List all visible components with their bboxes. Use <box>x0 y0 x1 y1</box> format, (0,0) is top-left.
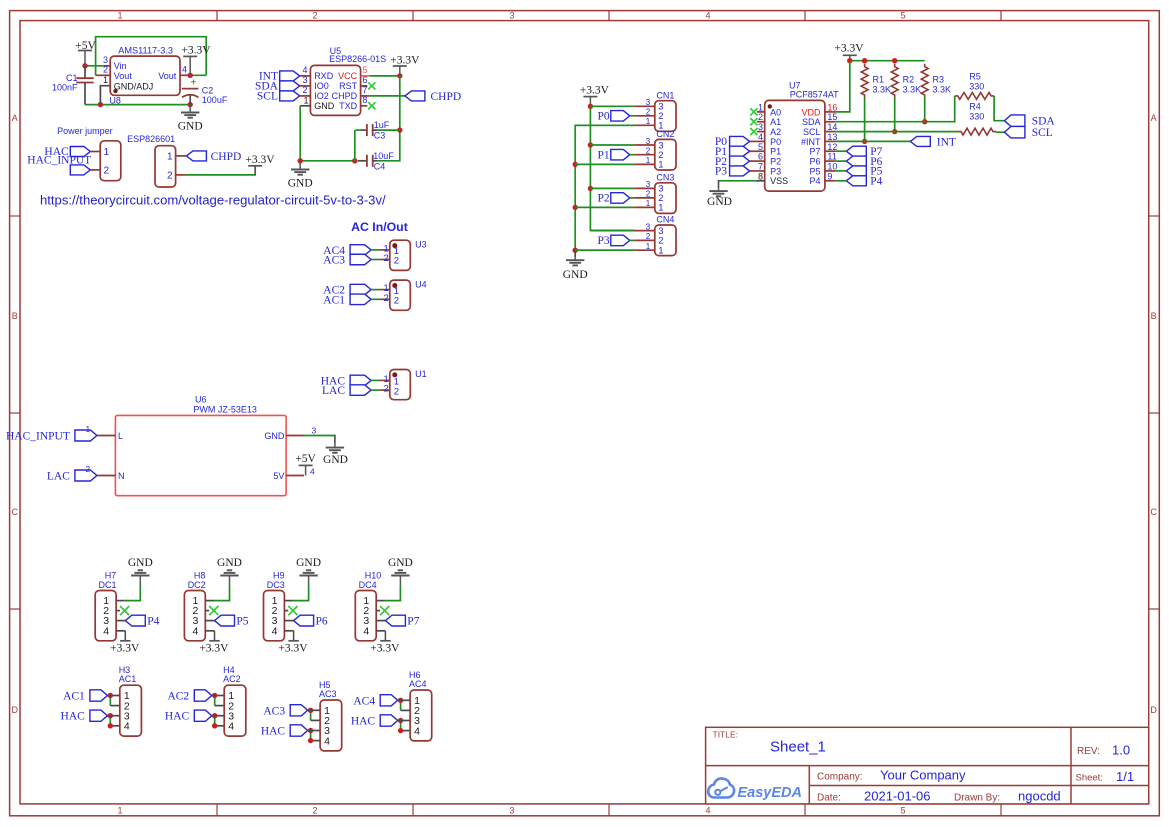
svg-text:P4: P4 <box>147 615 159 627</box>
wire AC4 to U3 pin1 <box>371 249 380 251</box>
capacitor C3 1uF <box>361 120 390 140</box>
svg-text:1uF: 1uF <box>374 120 390 130</box>
svg-text:+: + <box>190 78 196 89</box>
no-connect X on H7 pin2 <box>120 606 129 615</box>
EasyEDA logo <box>708 778 802 801</box>
header H7 DC1 <box>95 571 125 641</box>
capacitor C2 100uF polarized <box>182 78 228 105</box>
svg-text:PCF8574AT: PCF8574AT <box>790 89 839 99</box>
svg-text:GND: GND <box>314 101 335 111</box>
wire +3.3V to CN2 pin3 <box>590 144 634 146</box>
wire U8 GND rail <box>85 102 193 107</box>
wire +3.3V to CN1 pin3 <box>590 105 634 107</box>
junction dots H6 <box>398 698 403 734</box>
svg-text:2: 2 <box>312 10 317 20</box>
svg-text:U1: U1 <box>415 369 427 379</box>
svg-text:4: 4 <box>414 725 420 737</box>
svg-text:2: 2 <box>86 465 91 474</box>
net flag P1 (to U7) <box>715 146 750 158</box>
regulator U8 AMS1117-3.3 <box>96 45 191 105</box>
svg-text:2: 2 <box>384 293 389 304</box>
svg-text:8: 8 <box>758 171 763 181</box>
wire H7 pin1 to GND <box>124 586 140 601</box>
svg-text:5: 5 <box>900 806 905 816</box>
svg-text:16: 16 <box>827 102 837 112</box>
svg-text:P7: P7 <box>407 615 419 627</box>
svg-text:3: 3 <box>312 426 317 436</box>
connector U4 <box>380 280 427 311</box>
ground GND (H10) <box>388 557 413 586</box>
svg-text:+3.3V: +3.3V <box>370 643 400 655</box>
power +3.3V (H7) <box>110 631 140 655</box>
wire AC2 to H4 pins 1-2 <box>215 696 225 706</box>
svg-text:GND: GND <box>288 177 313 189</box>
no-connect X on H8 pin2 <box>209 606 218 615</box>
svg-text:4: 4 <box>103 625 109 637</box>
svg-text:2: 2 <box>312 806 317 816</box>
svg-text:GND: GND <box>264 431 285 441</box>
wire U5 VCC to +3.3V <box>370 73 403 78</box>
svg-text:GND: GND <box>323 454 348 466</box>
svg-text:U4: U4 <box>415 280 427 290</box>
svg-text:2: 2 <box>384 384 389 395</box>
wire P3 to CN4 pin2 <box>630 239 635 241</box>
wire GND to CN3 pin1 <box>575 206 634 208</box>
svg-text:1: 1 <box>86 425 91 434</box>
net flag SDA (to U5) <box>255 81 300 93</box>
svg-text:ESP826601: ESP826601 <box>127 134 175 144</box>
svg-text:AC In/Out: AC In/Out <box>351 220 408 234</box>
wire P7 to U7 pin12 <box>835 150 846 152</box>
wire U7 SCL to R4 <box>835 131 958 133</box>
wire AC1 to H3 pins 1-2 <box>110 696 120 706</box>
svg-text:CHPD: CHPD <box>332 91 358 101</box>
wire R5 to SDA flag <box>994 96 1004 121</box>
svg-text:A0: A0 <box>770 107 781 117</box>
svg-text:2: 2 <box>302 85 307 95</box>
svg-text:3: 3 <box>646 98 651 107</box>
svg-text:AMS1117-3.3: AMS1117-3.3 <box>118 45 173 55</box>
svg-text:Sheet:: Sheet: <box>1076 773 1103 784</box>
svg-text:1: 1 <box>658 160 663 171</box>
svg-text:9: 9 <box>827 171 832 181</box>
net flag P5 (to H8) <box>215 615 249 627</box>
header H8 DC2 <box>184 571 214 641</box>
net flag SDA (I2C bus) <box>1004 115 1055 128</box>
net flag P0 (to U7) <box>715 136 750 148</box>
svg-text:1: 1 <box>303 95 308 105</box>
svg-text:A: A <box>12 113 18 123</box>
wire AC1 to U4 pin2 <box>371 298 380 300</box>
svg-text:AC3: AC3 <box>263 705 285 717</box>
power +3.3V (H9) <box>278 631 308 655</box>
wire LAC to U1 pin2 <box>371 389 380 391</box>
svg-text:A2: A2 <box>770 127 781 137</box>
svg-text:4: 4 <box>302 65 307 75</box>
svg-text:A1: A1 <box>770 117 781 127</box>
wire U8 pin1 to GND rail <box>100 86 109 105</box>
svg-text:1: 1 <box>167 151 173 162</box>
ground GND (U6) <box>323 444 348 467</box>
svg-text:4: 4 <box>363 625 369 637</box>
svg-text:13: 13 <box>827 132 837 142</box>
wire R4 to SCL flag <box>996 131 1004 133</box>
power +3.3V (U8 output) <box>181 44 211 75</box>
net flag HAC (to H5) <box>261 725 308 738</box>
svg-text:LAC: LAC <box>322 385 345 397</box>
svg-text:B: B <box>12 311 18 321</box>
header H5 AC3 <box>308 680 342 751</box>
net flag P0 (to CN1) <box>598 111 630 123</box>
power +3.3V (CN group) <box>580 84 610 106</box>
svg-text:AC1: AC1 <box>323 294 345 306</box>
net flag AC2 (to H4) <box>167 690 211 703</box>
connector U3 <box>380 240 427 271</box>
junction dots H4 <box>212 693 217 729</box>
svg-text:CN1: CN1 <box>656 90 674 100</box>
svg-text:14: 14 <box>827 122 837 132</box>
module U5 ESP8266-01S <box>300 46 386 115</box>
wire U5 CHPD to flag <box>370 95 405 97</box>
svg-text:CHPD: CHPD <box>211 151 242 163</box>
net flag HAC (to U1) <box>321 375 371 387</box>
svg-text:GND: GND <box>217 557 242 569</box>
svg-text:3: 3 <box>646 180 651 189</box>
svg-text:5: 5 <box>758 142 763 152</box>
module U6 PWM JZ-53E13 <box>97 395 317 496</box>
svg-text:1/1: 1/1 <box>1116 769 1134 784</box>
svg-text:P0: P0 <box>770 137 781 147</box>
svg-text:Power jumper: Power jumper <box>57 126 113 136</box>
svg-text:A: A <box>1151 113 1157 123</box>
svg-text:CN4: CN4 <box>656 215 674 225</box>
svg-text:HAC: HAC <box>61 711 86 723</box>
power +5V (U6) <box>295 453 316 475</box>
header H9 DC3 <box>264 571 294 641</box>
wire U7 #INT to INT flag <box>835 140 910 142</box>
wire U7 VSS to ground <box>719 180 757 188</box>
wire AC3 to U3 pin2 <box>371 259 380 261</box>
svg-text:2021-01-06: 2021-01-06 <box>864 789 931 804</box>
ground GND (U5) <box>288 161 313 190</box>
svg-text:8: 8 <box>362 95 367 105</box>
junction dots H3 <box>108 693 113 729</box>
wire AC2 to U4 pin1 <box>371 289 380 291</box>
svg-text:2: 2 <box>646 108 651 117</box>
net flag HAC (to H3) <box>61 710 108 723</box>
svg-text:C: C <box>1150 507 1157 517</box>
svg-text:3: 3 <box>302 75 307 85</box>
svg-text:1: 1 <box>103 75 108 85</box>
capacitor C4 10uF <box>358 151 394 171</box>
svg-text:CN2: CN2 <box>656 129 674 139</box>
svg-text:100uF: 100uF <box>202 95 228 105</box>
svg-text:GND: GND <box>296 557 321 569</box>
svg-text:12: 12 <box>827 142 837 152</box>
svg-text:P1: P1 <box>598 149 610 161</box>
net flag SCL (I2C bus) <box>1004 126 1052 139</box>
header H10 DC4 <box>355 571 385 641</box>
svg-text:AC2: AC2 <box>167 691 189 703</box>
svg-text:Vout: Vout <box>158 71 177 81</box>
wire AC3 to H5 pins 1-2 <box>311 710 321 720</box>
svg-text:Date:: Date: <box>817 793 841 804</box>
svg-text:AC3: AC3 <box>323 255 345 267</box>
svg-text:AC4: AC4 <box>353 695 375 707</box>
resistor R4 330 <box>958 101 996 135</box>
svg-text:4: 4 <box>758 132 763 142</box>
io expander U7 PCF8574AT <box>750 80 840 191</box>
wire U8 Vout pin2 to pin4 loop <box>96 37 207 76</box>
net flag INT (to U5) <box>259 71 300 83</box>
svg-text:CHPD: CHPD <box>431 91 462 103</box>
svg-text:3: 3 <box>509 10 514 20</box>
no-connect X on U7 A1 <box>750 118 757 125</box>
ground GND (H8) <box>217 557 242 586</box>
svg-text:HAC_INPUT: HAC_INPUT <box>6 431 70 443</box>
wire AC4 to H6 pins 1-2 <box>401 700 411 710</box>
svg-text:7: 7 <box>758 161 763 171</box>
wire U8 pin4 to +3.3V node <box>180 73 206 78</box>
no-connect X on H9 pin2 <box>288 606 297 615</box>
no-connect X on U5 TXD <box>368 102 375 109</box>
svg-text:DC1: DC1 <box>99 580 117 590</box>
svg-text:LAC: LAC <box>47 471 70 483</box>
svg-text:ESP8266-01S: ESP8266-01S <box>329 54 386 64</box>
svg-text:C3: C3 <box>374 131 386 141</box>
net flag P4 (to H7) <box>125 615 159 627</box>
svg-text:AC1: AC1 <box>119 674 137 684</box>
svg-text:3: 3 <box>758 122 763 132</box>
wire U6 GND pin to ground <box>304 435 335 444</box>
svg-text:H10: H10 <box>365 571 382 581</box>
svg-text:1.0: 1.0 <box>1112 743 1130 758</box>
svg-text:H7: H7 <box>105 571 117 581</box>
svg-text:+3.3V: +3.3V <box>181 44 211 56</box>
svg-text:4: 4 <box>228 721 234 733</box>
svg-text:3.3K: 3.3K <box>903 85 922 95</box>
svg-text:INT: INT <box>937 136 956 148</box>
svg-text:IO2: IO2 <box>314 91 329 101</box>
svg-text:P3: P3 <box>770 166 781 176</box>
svg-text:1: 1 <box>646 117 651 126</box>
svg-text:CN3: CN3 <box>656 172 674 182</box>
svg-text:R3: R3 <box>933 75 945 85</box>
svg-text:4: 4 <box>705 806 710 816</box>
svg-text:P5: P5 <box>809 166 820 176</box>
svg-text:+3.3V: +3.3V <box>199 643 229 655</box>
svg-text:+5V: +5V <box>295 453 316 465</box>
wire +3.3V vertical to C3 C4 <box>377 76 402 161</box>
wire HAC to U1 pin1 <box>371 379 380 381</box>
svg-text:4: 4 <box>192 625 198 637</box>
svg-text:1: 1 <box>646 242 651 251</box>
connector CN2 <box>634 129 676 171</box>
svg-text:L: L <box>118 431 123 441</box>
net flag LAC (to U1) <box>322 385 371 397</box>
net flag HAC (to H6) <box>351 715 398 728</box>
net flag AC4 (to H6) <box>353 695 397 708</box>
svg-text:2: 2 <box>646 232 651 241</box>
wire HAC to H3 pins 3-4 <box>110 716 120 726</box>
svg-text:+3.3V: +3.3V <box>245 154 275 166</box>
svg-text:11: 11 <box>827 152 836 162</box>
svg-text:1: 1 <box>646 199 651 208</box>
connector CN4 <box>634 215 676 257</box>
net flag P2 (to U7) <box>715 156 750 168</box>
svg-text:P7: P7 <box>809 147 820 157</box>
svg-text:P4: P4 <box>809 176 820 186</box>
svg-text:HAC: HAC <box>351 716 376 728</box>
svg-text:GND: GND <box>388 557 413 569</box>
svg-text:10uF: 10uF <box>373 151 394 161</box>
svg-text:R4: R4 <box>969 101 981 111</box>
svg-text:Vout: Vout <box>114 71 133 81</box>
svg-text:GND: GND <box>707 196 732 208</box>
power +3.3V (U7 pullups) <box>834 42 864 60</box>
wire +3.3V vertical rail CN group <box>588 104 635 231</box>
svg-text:5: 5 <box>900 10 905 20</box>
svg-text:C: C <box>12 507 19 517</box>
svg-text:4: 4 <box>324 735 330 747</box>
svg-text:10: 10 <box>827 161 837 171</box>
resistor R3 3.3K <box>921 64 951 98</box>
net flag LAC (to U6 N) <box>47 465 97 482</box>
svg-text:1: 1 <box>658 203 663 214</box>
svg-text:AC3: AC3 <box>319 689 337 699</box>
wire HAC to H4 pins 3-4 <box>215 716 225 726</box>
wire P5 to U7 pin10 <box>835 170 846 172</box>
svg-text:IO0: IO0 <box>314 81 329 91</box>
junction dots H5 <box>308 708 313 744</box>
net flag P7 (from U7) <box>846 146 882 158</box>
svg-text:P3: P3 <box>715 166 727 178</box>
svg-text:HAC: HAC <box>261 726 286 738</box>
svg-text:VDD: VDD <box>801 107 821 117</box>
net flag HAC (power jumper) <box>44 146 90 158</box>
connector CN1 <box>634 90 676 131</box>
svg-text:Vin: Vin <box>114 61 127 71</box>
power +3.3V (H8) <box>199 631 229 655</box>
svg-text:100nF: 100nF <box>52 82 78 92</box>
svg-text:https://theorycircuit.com/volt: https://theorycircuit.com/voltage-regula… <box>40 193 386 208</box>
svg-text:5V: 5V <box>273 471 284 481</box>
svg-text:15: 15 <box>827 112 837 122</box>
wire +3.3V to CN4 pin3 <box>590 230 634 232</box>
svg-text:GND: GND <box>128 557 153 569</box>
svg-text:2: 2 <box>103 64 108 74</box>
net flag P4 (from U7) <box>846 176 882 188</box>
net flag CHPD (U5) <box>405 91 461 103</box>
svg-text:3: 3 <box>509 806 514 816</box>
connector CN3 <box>634 172 676 213</box>
svg-text:TXD: TXD <box>339 101 358 111</box>
svg-text:B: B <box>1151 311 1157 321</box>
svg-text:D: D <box>12 705 19 715</box>
svg-text:Company:: Company: <box>817 772 863 783</box>
ground GND (CN group) <box>563 250 588 281</box>
svg-text:7: 7 <box>362 85 367 95</box>
svg-text:2: 2 <box>646 147 651 156</box>
svg-text:4: 4 <box>124 721 130 733</box>
net flag AC1 (to H3) <box>63 690 107 703</box>
net flag P1 (to CN2) <box>598 149 630 161</box>
wire GND to CN1 pin1 <box>575 124 634 126</box>
net flag SCL (to U5) <box>257 91 300 103</box>
wire +5V to U8 Vin <box>82 63 103 68</box>
wire GND to CN2 pin1 <box>575 163 634 165</box>
svg-text:DC3: DC3 <box>267 580 285 590</box>
wire GND vertical rail CN group <box>573 125 635 253</box>
wire P4 to U7 pin9 <box>835 180 846 182</box>
wire P2 to CN3 pin2 <box>630 197 635 199</box>
svg-text:330: 330 <box>969 81 984 91</box>
svg-text:3: 3 <box>646 222 651 231</box>
svg-text:4: 4 <box>705 10 710 20</box>
wire +3.3V down to U7 VDD <box>835 61 850 112</box>
header H3 AC1 <box>107 665 141 736</box>
svg-text:VCC: VCC <box>338 71 358 81</box>
svg-text:2: 2 <box>394 296 399 307</box>
no-connect X on U5 RST <box>368 82 375 89</box>
header ESP826601 <box>127 134 186 187</box>
wire P0 to CN1 pin2 <box>630 115 635 117</box>
svg-text:GND/ADJ: GND/ADJ <box>114 81 154 91</box>
svg-text:1: 1 <box>758 102 763 112</box>
svg-text:P0: P0 <box>598 111 610 123</box>
ground GND (H9) <box>296 557 321 586</box>
wire HAC to H5 pins 3-4 <box>311 731 321 741</box>
svg-text:330: 330 <box>969 111 984 121</box>
svg-text:P2: P2 <box>770 157 781 167</box>
net flag AC1 (to U4) <box>323 294 371 306</box>
resistor R5 330 <box>955 71 994 99</box>
svg-text:VSS: VSS <box>770 176 788 186</box>
svg-text:SDA: SDA <box>1032 116 1056 128</box>
svg-text:+3.3V: +3.3V <box>390 54 420 66</box>
svg-text:ngocdd: ngocdd <box>1018 789 1061 804</box>
svg-text:+3.3V: +3.3V <box>834 42 864 54</box>
svg-text:RXD: RXD <box>314 71 334 81</box>
svg-text:2: 2 <box>384 253 389 264</box>
svg-text:2: 2 <box>104 165 110 176</box>
svg-text:2: 2 <box>394 256 399 267</box>
svg-text:2: 2 <box>167 170 173 181</box>
svg-text:EasyEDA: EasyEDA <box>738 785 802 801</box>
svg-text:C4: C4 <box>374 161 386 171</box>
svg-text:SCL: SCL <box>803 127 821 137</box>
svg-text:R5: R5 <box>969 71 981 81</box>
power +5V <box>75 40 96 66</box>
wire +3.3V rail to pullup resistors <box>847 58 925 63</box>
svg-text:DC4: DC4 <box>359 580 377 590</box>
svg-text:+3.3V: +3.3V <box>580 84 610 96</box>
svg-text:N: N <box>118 471 125 481</box>
header H4 AC2 <box>212 665 246 736</box>
svg-text:1: 1 <box>104 147 110 158</box>
svg-text:D: D <box>1150 705 1157 715</box>
svg-text:AC2: AC2 <box>223 674 241 684</box>
label AC In/Out <box>351 220 408 234</box>
svg-text:AC1: AC1 <box>63 691 85 703</box>
svg-text:HAC_INPUT: HAC_INPUT <box>27 154 91 166</box>
header H6 AC4 <box>398 670 432 741</box>
net flag HAC_INPUT (to U6 L) <box>6 425 97 442</box>
svg-text:PWM JZ-53E13: PWM JZ-53E13 <box>193 405 257 415</box>
wire U5 GND down to ground rail <box>298 106 358 164</box>
svg-text:GND: GND <box>178 121 203 133</box>
wire C3 left to ground rail <box>355 130 361 161</box>
